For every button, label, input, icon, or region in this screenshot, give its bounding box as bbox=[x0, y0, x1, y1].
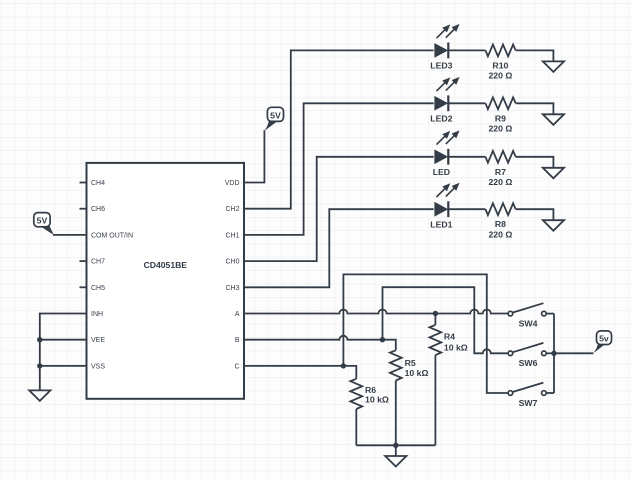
pin CH4 bbox=[80, 180, 106, 187]
ground (R8) bbox=[543, 220, 564, 231]
pin CH3 bbox=[225, 285, 239, 292]
power label 5V (COM) bbox=[34, 213, 54, 235]
svg-text:CD4051BE: CD4051BE bbox=[144, 260, 188, 270]
switch SW7 bbox=[508, 383, 546, 408]
wire net B row bbox=[244, 336, 396, 351]
wire R10 to ground bbox=[516, 50, 554, 61]
wire CH2 to LED3 row bbox=[244, 50, 434, 208]
wire R8 to ground bbox=[516, 209, 554, 220]
pin VDD bbox=[225, 180, 240, 187]
ground (rail) bbox=[385, 456, 406, 467]
svg-text:5V: 5V bbox=[270, 110, 281, 120]
wire R9 to ground bbox=[516, 103, 554, 114]
wire VDD to 5V bbox=[244, 130, 264, 182]
svg-text:R7: R7 bbox=[495, 167, 506, 177]
svg-text:SW4: SW4 bbox=[519, 318, 538, 328]
resistor R10 220 bbox=[486, 45, 516, 81]
svg-text:220 Ω: 220 Ω bbox=[488, 230, 512, 240]
wire SW4 to bus bbox=[546, 313, 554, 315]
junction A/R4 bbox=[433, 311, 438, 316]
wire C to SW7 bbox=[343, 274, 508, 393]
svg-text:CH5: CH5 bbox=[91, 285, 105, 292]
pin INH bbox=[91, 311, 103, 318]
svg-text:CH0: CH0 bbox=[225, 259, 239, 266]
power label 5V (VDD) bbox=[264, 107, 283, 131]
wire 5V to COM OUT/IN bbox=[53, 234, 87, 236]
svg-text:SW6: SW6 bbox=[519, 358, 538, 368]
svg-text:CH2: CH2 bbox=[225, 206, 239, 213]
svg-text:LED: LED bbox=[433, 167, 450, 177]
wire LED to R7 bbox=[448, 156, 486, 158]
wire switch bus bbox=[553, 314, 555, 393]
led LED1 bbox=[430, 184, 458, 229]
resistor R5 10k bbox=[390, 350, 429, 445]
wire net C row bbox=[244, 366, 356, 379]
power label 5v (switches) bbox=[593, 331, 611, 353]
junction VSS bbox=[37, 363, 42, 368]
pin CH6 bbox=[80, 206, 106, 213]
pin CH2 bbox=[225, 206, 239, 213]
svg-text:R10: R10 bbox=[492, 60, 508, 70]
svg-text:CH1: CH1 bbox=[225, 232, 239, 239]
switch SW6 bbox=[508, 343, 546, 368]
svg-text:INH: INH bbox=[91, 311, 103, 318]
svg-text:5V: 5V bbox=[37, 216, 48, 226]
wire LED1 to R8 bbox=[448, 208, 486, 210]
wire bus to 5v label bbox=[554, 352, 593, 354]
switch SW4 bbox=[508, 303, 546, 328]
svg-text:R8: R8 bbox=[495, 219, 506, 229]
svg-text:LED2: LED2 bbox=[430, 114, 452, 124]
svg-text:COM OUT/IN: COM OUT/IN bbox=[91, 232, 133, 239]
svg-text:LED1: LED1 bbox=[430, 219, 452, 229]
pin CH0 bbox=[225, 259, 239, 266]
wire B to SW6 bbox=[383, 287, 509, 353]
wire SW6 to bus bbox=[546, 352, 554, 354]
svg-text:VSS: VSS bbox=[91, 363, 105, 370]
svg-text:VDD: VDD bbox=[225, 180, 240, 187]
wire SW7 to bus bbox=[546, 392, 554, 394]
ground (IC) bbox=[29, 390, 50, 401]
pin A bbox=[235, 311, 240, 318]
svg-text:R5: R5 bbox=[405, 358, 416, 368]
wire VEE to ground bus bbox=[40, 339, 87, 341]
led LED3 bbox=[430, 25, 458, 70]
wire net A row bbox=[244, 310, 508, 314]
svg-text:SW7: SW7 bbox=[519, 398, 538, 408]
junction VEE bbox=[37, 337, 42, 342]
wire INH to ground bus bbox=[40, 314, 87, 391]
led LED bbox=[433, 132, 459, 177]
svg-text:220 Ω: 220 Ω bbox=[488, 177, 512, 187]
pin CH7 bbox=[80, 259, 106, 266]
pin C bbox=[234, 363, 239, 370]
wire VSS to ground bus bbox=[40, 365, 87, 367]
ground (R9) bbox=[543, 114, 564, 125]
svg-text:A: A bbox=[235, 311, 240, 318]
svg-text:CH6: CH6 bbox=[91, 206, 105, 213]
led LED2 bbox=[430, 78, 458, 123]
IC U1 CD4051BE (8-channel analog multiplexer) bbox=[87, 163, 245, 399]
junction C/wire1 bbox=[341, 363, 346, 368]
svg-text:10 kΩ: 10 kΩ bbox=[365, 395, 389, 405]
wire R7 to ground bbox=[516, 157, 554, 168]
wire LED3 to R10 bbox=[448, 49, 486, 51]
svg-text:CH7: CH7 bbox=[91, 259, 105, 266]
pin VSS bbox=[91, 363, 105, 370]
svg-text:10 kΩ: 10 kΩ bbox=[444, 342, 468, 352]
junction bus/5v bbox=[551, 351, 556, 356]
svg-text:5v: 5v bbox=[599, 334, 609, 344]
wire rail to ground bbox=[395, 445, 397, 456]
junction rail/R5 bbox=[393, 443, 398, 448]
pin VEE bbox=[91, 337, 105, 344]
pin B bbox=[235, 337, 240, 344]
resistor R6 10k bbox=[350, 379, 389, 446]
svg-text:VEE: VEE bbox=[91, 337, 105, 344]
svg-text:C: C bbox=[234, 363, 239, 370]
svg-text:220 Ω: 220 Ω bbox=[488, 124, 512, 134]
pin CH5 bbox=[80, 285, 106, 292]
pin CH1 bbox=[225, 232, 239, 239]
svg-text:R6: R6 bbox=[365, 385, 376, 395]
wire CH0 to LED row bbox=[244, 157, 434, 261]
ground (R7) bbox=[543, 168, 564, 179]
ground (R10) bbox=[543, 61, 564, 72]
svg-text:CH4: CH4 bbox=[91, 180, 105, 187]
resistor R8 220 bbox=[486, 203, 516, 239]
svg-text:LED3: LED3 bbox=[430, 61, 452, 71]
svg-text:B: B bbox=[235, 337, 240, 344]
svg-text:10 kΩ: 10 kΩ bbox=[405, 368, 429, 378]
wire ground rail bbox=[356, 444, 435, 446]
resistor R4 10k bbox=[430, 314, 468, 446]
pin COM OUT/IN bbox=[91, 232, 133, 239]
junction B/wire2 bbox=[380, 337, 385, 342]
svg-text:CH3: CH3 bbox=[225, 285, 239, 292]
wire LED2 to R9 bbox=[448, 102, 486, 104]
svg-text:R4: R4 bbox=[444, 332, 455, 342]
svg-text:R9: R9 bbox=[495, 113, 506, 123]
wire CH1 to LED2 row bbox=[244, 103, 434, 235]
resistor R7 220 bbox=[486, 151, 516, 187]
wire CH3 to LED1 row bbox=[244, 209, 434, 287]
svg-text:220 Ω: 220 Ω bbox=[488, 71, 512, 81]
resistor R9 220 bbox=[486, 97, 516, 133]
